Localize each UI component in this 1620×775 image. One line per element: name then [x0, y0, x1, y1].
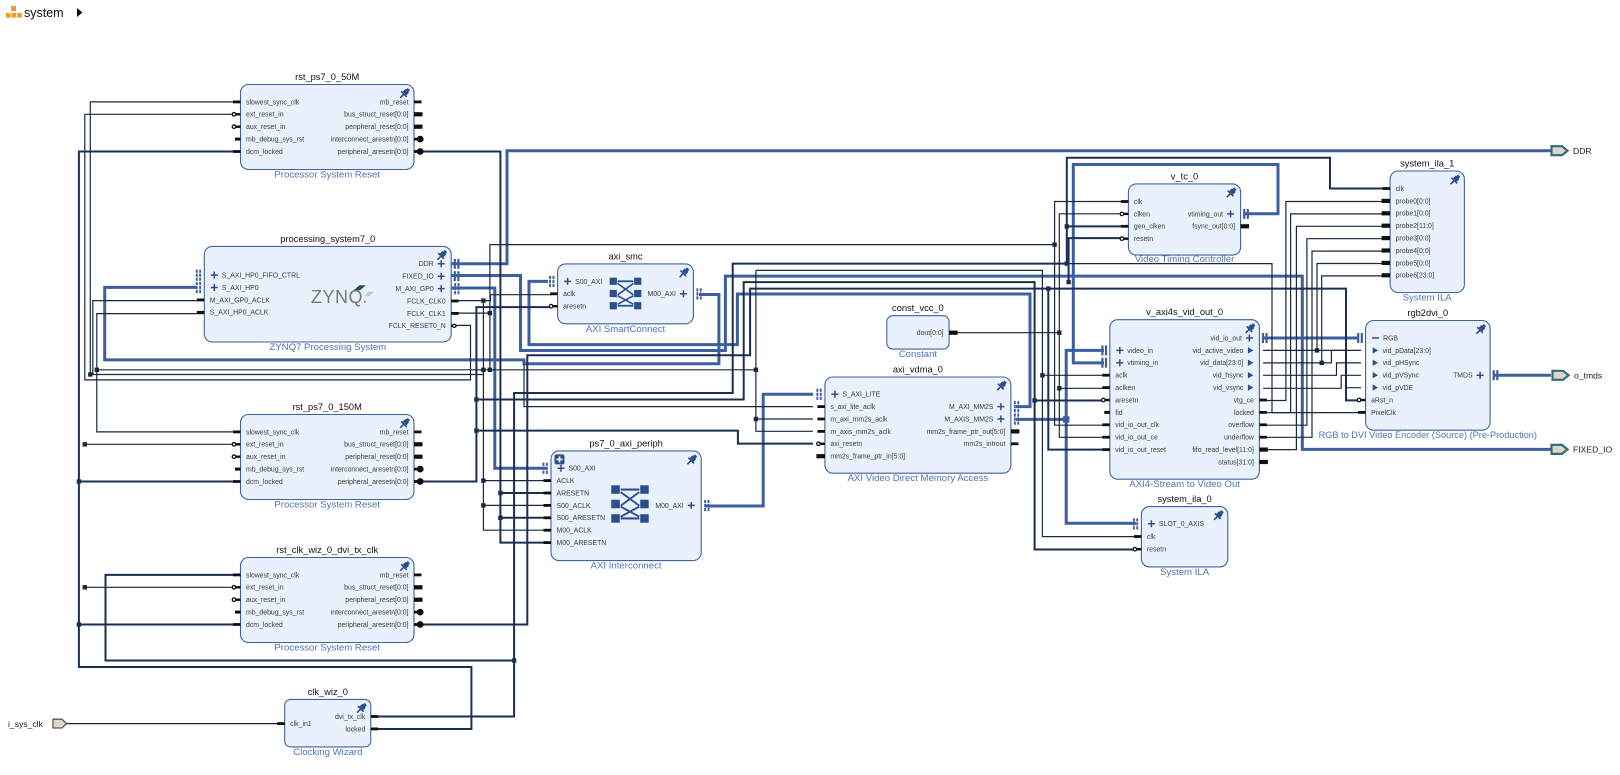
svg-text:probe2[11:0]: probe2[11:0] — [1396, 223, 1434, 230]
wire wire — [1263, 239, 1386, 426]
pin rst_clk_wiz_0_dvi_tx_clk.peripheral_reset[0:0] — [414, 598, 423, 602]
svg-text:vid_pData[23:0]: vid_pData[23:0] — [1383, 348, 1431, 355]
wire net vid_io_out to RGB — [1263, 337, 1358, 340]
pin v_axi4s_vid_out_0.aclk — [1102, 374, 1110, 377]
svg-text:aux_reset_in: aux_reset_in — [246, 454, 286, 461]
svg-text:S00_AXI: S00_AXI — [575, 279, 602, 286]
wire wire — [1263, 363, 1361, 375]
svg-text:locked: locked — [345, 726, 365, 733]
svg-text:mb_reset: mb_reset — [380, 99, 409, 106]
wire wire — [97, 370, 241, 432]
wire wire — [756, 270, 1137, 536]
svg-text:vid_io_out: vid_io_out — [1210, 335, 1242, 342]
pin system_ila_1.probe3[0:0] — [1382, 236, 1391, 240]
wire net FIXED_IO — [451, 276, 1551, 450]
pin v_axi4s_vid_out_0.vid_data[23:0] — [1248, 360, 1253, 366]
external port o_tmds — [1553, 371, 1569, 380]
junction — [88, 372, 92, 376]
wire wire — [1263, 251, 1386, 437]
pin ps7_0_axi_periph.M00_ARESETN — [544, 541, 552, 544]
junction — [1315, 348, 1319, 352]
svg-text:S00_ACLK: S00_ACLK — [557, 503, 591, 510]
svg-text:Video Timing Controller: Video Timing Controller — [1135, 254, 1235, 265]
pin ps7_0_axi_periph.S00_AXI — [558, 465, 565, 472]
svg-text:Processor System Reset: Processor System Reset — [274, 170, 380, 181]
pin clk_wiz_0.locked — [371, 728, 379, 731]
svg-text:interconnect_aresetn[0:0]: interconnect_aresetn[0:0] — [331, 610, 409, 617]
pin v_tc_0.resetn — [1124, 238, 1129, 240]
svg-text:fifo_read_level[11:0]: fifo_read_level[11:0] — [1192, 447, 1254, 454]
pin rst_ps7_0_150M.peripheral_reset[0:0] — [414, 455, 423, 459]
pin axi_smc.aclk — [550, 292, 558, 295]
svg-text:fsync_out[0:0]: fsync_out[0:0] — [1192, 224, 1235, 231]
svg-text:m_axi_mm2s_aclk: m_axi_mm2s_aclk — [830, 416, 888, 423]
svg-text:vid_io_out_clk: vid_io_out_clk — [1115, 422, 1159, 429]
pin processing_system7_0.S_AXI_HP0_ACLK — [197, 311, 205, 314]
junction — [754, 368, 758, 372]
wire net M_AXI_GP0 to ps7_0_axi_periph S00_AXI — [451, 288, 546, 468]
svg-text:locked: locked — [1234, 410, 1254, 417]
svg-text:FIXED_IO: FIXED_IO — [402, 274, 434, 281]
pin v_tc_0.fsync_out[0:0] — [1241, 224, 1250, 228]
svg-text:bus_struct_reset[0:0]: bus_struct_reset[0:0] — [344, 112, 408, 119]
svg-text:dout[0:0]: dout[0:0] — [917, 330, 944, 337]
wire wire — [1055, 245, 1104, 426]
svg-text:system: system — [24, 6, 64, 20]
svg-text:vid_data[23:0]: vid_data[23:0] — [1200, 360, 1243, 367]
svg-text:RGB to DVI Video Encoder (Sour: RGB to DVI Video Encoder (Source) (Pre-P… — [1319, 430, 1537, 440]
junction — [1320, 361, 1324, 365]
pin rst_ps7_0_50M.peripheral_reset[0:0] — [414, 125, 423, 129]
pin rst_clk_wiz_0_dvi_tx_clk.interconnect_aresetn[0:0] — [414, 611, 419, 614]
pin system_ila_1.clk — [1383, 187, 1391, 190]
svg-text:system_ila_1: system_ila_1 — [1400, 159, 1454, 169]
pin v_axi4s_vid_out_0.vid_io_out — [1246, 335, 1253, 342]
wire wire — [500, 517, 546, 519]
pin rgb2dvi_0.TMDS — [1477, 372, 1484, 379]
pin rgb2dvi_0.vid_pVDE — [1373, 384, 1378, 390]
wire wire — [93, 301, 484, 375]
svg-text:clk: clk — [1396, 186, 1405, 193]
svg-text:M00_ARESETN: M00_ARESETN — [557, 540, 607, 547]
wire net PixelClk — [1067, 264, 1361, 413]
pin rgb2dvi_0.RGB — [1372, 337, 1379, 339]
svg-text:dvi_tx_clk: dvi_tx_clk — [335, 714, 366, 721]
svg-text:vid_hsync: vid_hsync — [1213, 373, 1244, 380]
pin v_axi4s_vid_out_0.locked — [1259, 411, 1267, 414]
pin rgb2dvi_0.aRst_n — [1361, 399, 1366, 401]
external port FIXED_IO — [1552, 445, 1568, 454]
pin ps7_0_axi_periph.ARESETN — [544, 492, 552, 495]
pin processing_system7_0.S_AXI_HP0_FIFO_CTRL — [211, 272, 218, 279]
pin v_axi4s_vid_out_0.fifo_read_level[11:0] — [1259, 448, 1268, 452]
svg-text:mm2s_introut: mm2s_introut — [964, 441, 1006, 448]
pin ps7_0_axi_periph.S00_ACLK — [544, 504, 552, 507]
svg-text:clk: clk — [1134, 199, 1143, 206]
svg-text:S00_ARESETN: S00_ARESETN — [557, 515, 606, 522]
svg-text:S00_AXI: S00_AXI — [569, 466, 596, 473]
wire wire — [1069, 238, 1123, 282]
wire wire — [524, 364, 813, 407]
svg-text:DDR: DDR — [1573, 146, 1592, 156]
wire wire — [90, 102, 240, 375]
svg-text:aclk: aclk — [563, 291, 576, 298]
svg-text:ps7_0_axi_periph: ps7_0_axi_periph — [589, 438, 662, 448]
junction — [1057, 386, 1061, 390]
breadcrumb arrow — [77, 8, 83, 17]
pin v_axi4s_vid_out_0.vid_active_video — [1248, 347, 1253, 353]
pin rst_ps7_0_150M.mb_debug_sys_rst — [235, 468, 241, 471]
svg-text:Processor System Reset: Processor System Reset — [274, 500, 380, 511]
svg-text:rst_ps7_0_150M: rst_ps7_0_150M — [293, 402, 362, 412]
svg-text:interconnect_aresetn[0:0]: interconnect_aresetn[0:0] — [331, 137, 409, 144]
svg-text:peripheral_aresetn[0:0]: peripheral_aresetn[0:0] — [338, 149, 409, 156]
wire net rst50M peripheral_aresetn — [421, 152, 546, 543]
pin v_tc_0.clken — [1124, 213, 1129, 215]
svg-text:ext_reset_in: ext_reset_in — [246, 112, 284, 119]
svg-text:mb_debug_sys_rst: mb_debug_sys_rst — [246, 610, 304, 617]
wire net FCLK_CLK1 — [97, 313, 490, 370]
pin rst_ps7_0_150M.bus_struct_reset[0:0] — [414, 442, 423, 446]
wire wire — [490, 370, 813, 432]
svg-text:vid_active_video: vid_active_video — [1192, 348, 1243, 355]
svg-text:s_axi_lite_aclk: s_axi_lite_aclk — [830, 404, 875, 411]
svg-text:M_AXI_MM2S: M_AXI_MM2S — [949, 404, 994, 411]
svg-text:ext_reset_in: ext_reset_in — [246, 585, 284, 592]
pin axi_vdma_0.m_axi_mm2s_aclk — [817, 418, 825, 421]
wire wire — [1067, 225, 1123, 227]
pin rgb2dvi_0.PixelClk — [1358, 411, 1366, 414]
svg-text:probe0[0:0]: probe0[0:0] — [1396, 198, 1431, 205]
svg-text:axi_smc: axi_smc — [608, 251, 642, 261]
svg-text:i_sys_clk: i_sys_clk — [8, 719, 44, 729]
wire wire — [476, 282, 1137, 549]
svg-text:probe4[0:0]: probe4[0:0] — [1396, 248, 1431, 255]
wire wire — [755, 270, 757, 369]
pin axi_vdma_0.M_AXIS_MM2S — [997, 416, 1004, 423]
junction — [1052, 242, 1056, 246]
svg-text:dcm_locked: dcm_locked — [246, 622, 283, 629]
wire wire — [79, 624, 241, 626]
breadcrumb icon — [6, 6, 22, 18]
svg-text:AXI4-Stream to Video Out: AXI4-Stream to Video Out — [1129, 479, 1240, 490]
pin v_axi4s_vid_out_0.overflow — [1259, 423, 1267, 426]
svg-text:vtiming_in: vtiming_in — [1127, 360, 1158, 367]
wire wire — [1263, 226, 1386, 449]
svg-text:slowest_sync_clk: slowest_sync_clk — [246, 572, 300, 579]
wire net FCLK_RESET0_N — [85, 114, 471, 380]
svg-text:peripheral_aresetn[0:0]: peripheral_aresetn[0:0] — [338, 479, 409, 486]
pin rst_ps7_0_50M.aux_reset_in — [236, 126, 241, 128]
junction — [481, 298, 485, 302]
pin clk_wiz_0.dvi_tx_clk — [371, 715, 379, 718]
pin v_axi4s_vid_out_0.vid_io_out_clk — [1102, 423, 1110, 426]
pin axi_vdma_0.axi_resetn — [820, 443, 825, 445]
wire wire — [1042, 374, 1104, 376]
junction — [1046, 286, 1050, 290]
svg-text:clk_wiz_0: clk_wiz_0 — [308, 687, 348, 697]
junction — [488, 368, 492, 372]
wire wire — [1059, 387, 1104, 389]
pin v_axi4s_vid_out_0.vid_hsync — [1248, 372, 1253, 378]
svg-text:rst_ps7_0_50M: rst_ps7_0_50M — [295, 72, 359, 82]
wire net M_AXIS_MM2S to video_in — [1016, 350, 1104, 419]
wire wire — [500, 492, 546, 494]
pin rst_clk_wiz_0_dvi_tx_clk.slowest_sync_clk — [233, 574, 241, 577]
pin v_axi4s_vid_out_0.aresetn — [1105, 399, 1110, 401]
svg-text:FCLK_RESET0_N: FCLK_RESET0_N — [389, 323, 446, 330]
wire net i_sys_clk to clk_in1 — [66, 723, 281, 725]
svg-text:DDR: DDR — [419, 261, 434, 268]
wire wire — [1035, 400, 1104, 402]
svg-text:ZYNQ7 Processing System: ZYNQ7 Processing System — [269, 342, 386, 353]
junction — [474, 428, 478, 432]
pin v_axi4s_vid_out_0.vtiming_in — [1116, 359, 1123, 366]
svg-text:dcm_locked: dcm_locked — [246, 479, 283, 486]
wire net M_AXI_MM2S to axi_smc S00_AXI — [529, 281, 1030, 406]
pin v_axi4s_vid_out_0.status[31:0] — [1259, 460, 1268, 464]
wire wire — [1263, 202, 1386, 401]
svg-text:clk_in1: clk_in1 — [290, 721, 312, 728]
pin rst_clk_wiz_0_dvi_tx_clk.mb_reset — [414, 574, 422, 577]
wire net axi_smc M00_AXI to S_AXI_HP0 — [105, 287, 719, 363]
svg-text:system_ila_0: system_ila_0 — [1157, 494, 1211, 504]
junction — [481, 478, 485, 482]
pin v_axi4s_vid_out_0.vid_io_out_reset — [1102, 448, 1110, 451]
pin rst_ps7_0_150M.dcm_locked — [233, 480, 241, 483]
wire wire — [483, 480, 546, 482]
pin v_axi4s_vid_out_0.fid — [1104, 411, 1110, 414]
svg-text:TMDS: TMDS — [1453, 373, 1473, 380]
pin processing_system7_0.S_AXI_HP0 — [211, 284, 218, 291]
svg-text:FCLK_CLK1: FCLK_CLK1 — [407, 311, 446, 318]
wire wire — [476, 431, 813, 444]
svg-text:mb_debug_sys_rst: mb_debug_sys_rst — [246, 137, 304, 144]
svg-text:v_tc_0: v_tc_0 — [1171, 171, 1198, 181]
svg-text:peripheral_reset[0:0]: peripheral_reset[0:0] — [345, 597, 408, 604]
pin system_ila_1.probe1[0:0] — [1382, 211, 1391, 215]
svg-text:m_axis_mm2s_aclk: m_axis_mm2s_aclk — [830, 429, 891, 436]
svg-text:aux_reset_in: aux_reset_in — [246, 597, 286, 604]
svg-text:Processor System Reset: Processor System Reset — [274, 643, 380, 654]
wire wire — [1263, 350, 1361, 363]
svg-text:M00_AXI: M00_AXI — [655, 503, 683, 510]
pin system_ila_1.probe0[0:0] — [1382, 199, 1391, 203]
svg-text:underflow: underflow — [1224, 435, 1254, 442]
pin axi_smc.S00_AXI — [564, 278, 571, 285]
svg-text:mb_reset: mb_reset — [380, 572, 409, 579]
pin system_ila_1.probe4[0:0] — [1382, 248, 1391, 252]
pin processing_system7_0.FCLK_RESET0_N — [451, 325, 457, 327]
pin rst_clk_wiz_0_dvi_tx_clk.mb_debug_sys_rst — [235, 611, 241, 614]
svg-text:vid_pVDE: vid_pVDE — [1383, 385, 1414, 392]
pin rst_ps7_0_50M.ext_reset_in — [236, 113, 241, 115]
svg-text:Constant: Constant — [899, 349, 938, 360]
svg-text:SLOT_0_AXIS: SLOT_0_AXIS — [1159, 521, 1205, 528]
wire wire — [1263, 375, 1361, 388]
svg-text:v_axi4s_vid_out_0: v_axi4s_vid_out_0 — [1146, 307, 1223, 317]
pin rst_ps7_0_50M.mb_debug_sys_rst — [235, 138, 241, 141]
pin v_axi4s_vid_out_0.vid_io_out_ce — [1102, 436, 1110, 439]
pin v_tc_0.clk — [1121, 200, 1129, 203]
pin v_axi4s_vid_out_0.video_in — [1116, 347, 1123, 354]
pin processing_system7_0.FCLK_CLK0 — [451, 300, 459, 303]
junction — [754, 417, 758, 421]
svg-text:probe5[0:0]: probe5[0:0] — [1396, 260, 1431, 267]
svg-text:const_vcc_0: const_vcc_0 — [892, 303, 944, 313]
pin axi_vdma_0.M_AXI_MM2S — [997, 403, 1004, 410]
svg-text:ACLK: ACLK — [557, 478, 575, 485]
pin processing_system7_0.DDR — [438, 260, 445, 267]
pin clk_wiz_0.clk_in1 — [277, 722, 285, 725]
junction — [1040, 373, 1044, 377]
wire net periph M00_AXI to vdma S_AXI_LITE — [705, 394, 813, 506]
wire wire — [490, 202, 1123, 314]
junction — [77, 622, 81, 626]
pin rst_ps7_0_150M.ext_reset_in — [236, 443, 241, 445]
junction — [1032, 398, 1036, 402]
wire wire — [483, 301, 546, 531]
junction — [95, 368, 99, 372]
wire net FCLK_CLK0 to smc aclk — [451, 295, 552, 301]
pin rst_clk_wiz_0_dvi_tx_clk.peripheral_aresetn[0:0] — [414, 623, 419, 626]
junction — [481, 503, 485, 507]
svg-text:video_in: video_in — [1127, 348, 1153, 355]
svg-text:AXI Video Direct Memory Access: AXI Video Direct Memory Access — [848, 473, 989, 484]
pin axi_vdma_0.mm2s_introut — [1011, 442, 1019, 445]
external port DDR — [1552, 146, 1568, 155]
junction — [83, 442, 87, 446]
junction — [498, 491, 502, 495]
wire wire — [1263, 214, 1386, 413]
pin rst_ps7_0_50M.dcm_locked — [233, 150, 241, 153]
pin v_axi4s_vid_out_0.vtg_ce — [1259, 399, 1267, 402]
svg-text:vid_io_out_reset: vid_io_out_reset — [1115, 447, 1166, 454]
svg-text:aRst_n: aRst_n — [1371, 397, 1393, 404]
svg-text:vid_vsync: vid_vsync — [1213, 385, 1244, 392]
pin rgb2dvi_0.vid_pHSync — [1373, 360, 1378, 366]
svg-text:System ILA: System ILA — [1403, 293, 1453, 304]
svg-text:aclk: aclk — [1115, 373, 1128, 380]
wire wire — [85, 443, 241, 445]
pin v_axi4s_vid_out_0.underflow — [1259, 436, 1267, 439]
junction — [1057, 331, 1061, 335]
svg-text:peripheral_reset[0:0]: peripheral_reset[0:0] — [345, 454, 408, 461]
wire net dvi_tx_clk branch to rst_clk_wiz slowest_sync_clk — [106, 575, 515, 661]
svg-text:bus_struct_reset[0:0]: bus_struct_reset[0:0] — [344, 442, 408, 449]
junction — [474, 397, 478, 401]
svg-text:System ILA: System ILA — [1160, 567, 1210, 578]
svg-text:probe1[0:0]: probe1[0:0] — [1396, 211, 1431, 218]
wire wire — [1263, 350, 1361, 387]
wire net TMDS to o_tmds — [1494, 374, 1551, 377]
svg-text:M_AXIS_MM2S: M_AXIS_MM2S — [944, 416, 993, 423]
pin axi_vdma_0.mm2s_frame_ptr_in[5:0] — [816, 454, 825, 458]
svg-text:S_AXI_HP0_FIFO_CTRL: S_AXI_HP0_FIFO_CTRL — [222, 273, 300, 280]
wire wire — [483, 504, 546, 506]
svg-text:M00_AXI: M00_AXI — [648, 291, 676, 298]
external port i_sys_clk — [53, 719, 67, 728]
svg-text:mm2s_frame_ptr_in[5:0]: mm2s_frame_ptr_in[5:0] — [830, 454, 905, 461]
pin rst_clk_wiz_0_dvi_tx_clk.aux_reset_in — [236, 599, 241, 601]
svg-text:o_tmds: o_tmds — [1574, 371, 1602, 381]
svg-text:mb_debug_sys_rst: mb_debug_sys_rst — [246, 467, 304, 474]
svg-text:fid: fid — [1115, 410, 1122, 417]
svg-text:RGB: RGB — [1383, 335, 1398, 342]
pin system_ila_1.probe6[23:0] — [1382, 273, 1391, 277]
svg-text:probe6[23:0]: probe6[23:0] — [1396, 273, 1435, 280]
junction — [488, 311, 492, 315]
wire wire — [756, 418, 813, 420]
svg-text:ARESETN: ARESETN — [557, 490, 590, 497]
wire wire — [79, 481, 241, 483]
pin rst_ps7_0_150M.peripheral_aresetn[0:0] — [414, 480, 419, 483]
svg-text:processing_system7_0: processing_system7_0 — [280, 234, 375, 244]
svg-text:resetn: resetn — [1134, 236, 1153, 243]
pin ps7_0_axi_periph.ACLK — [544, 479, 552, 482]
svg-text:axi_vdma_0: axi_vdma_0 — [893, 365, 943, 375]
svg-text:AXI Interconnect: AXI Interconnect — [591, 561, 662, 572]
svg-text:overflow: overflow — [1228, 422, 1254, 429]
svg-text:vid_pVSync: vid_pVSync — [1383, 373, 1420, 380]
svg-text:interconnect_aresetn[0:0]: interconnect_aresetn[0:0] — [331, 467, 409, 474]
pin rgb2dvi_0.vid_pData[23:0] — [1373, 347, 1378, 353]
svg-text:mm2s_frame_ptr_out[5:0]: mm2s_frame_ptr_out[5:0] — [926, 429, 1005, 436]
pin rst_ps7_0_150M.mb_reset — [414, 431, 422, 434]
svg-text:mb_reset: mb_reset — [380, 429, 409, 436]
svg-text:M00_ACLK: M00_ACLK — [557, 528, 593, 535]
svg-text:bus_struct_reset[0:0]: bus_struct_reset[0:0] — [344, 585, 408, 592]
svg-text:aresetn: aresetn — [563, 304, 586, 311]
junction — [83, 585, 87, 589]
pin rst_ps7_0_50M.peripheral_aresetn[0:0] — [414, 150, 419, 153]
svg-text:clken: clken — [1134, 211, 1150, 218]
pin rst_clk_wiz_0_dvi_tx_clk.ext_reset_in — [236, 586, 241, 588]
pin axi_vdma_0.mm2s_frame_ptr_out[5:0] — [1011, 429, 1020, 433]
svg-text:PixelClk: PixelClk — [1371, 410, 1396, 417]
wire net clk_wiz locked — [79, 152, 472, 730]
wire net vtiming_out to vtiming_in — [1073, 165, 1278, 363]
svg-text:aresetn: aresetn — [1115, 397, 1138, 404]
pin rst_ps7_0_50M.mb_reset — [414, 101, 422, 104]
pin system_ila_0.SLOT_0_AXIS — [1148, 520, 1155, 527]
svg-text:gen_clken: gen_clken — [1134, 224, 1166, 231]
pin rst_clk_wiz_0_dvi_tx_clk.bus_struct_reset[0:0] — [414, 585, 423, 589]
wire net dvi_tx_clk — [375, 158, 1386, 717]
pin rst_ps7_0_150M.aux_reset_in — [236, 456, 241, 458]
svg-text:Clocking Wizard: Clocking Wizard — [293, 747, 362, 758]
pin axi_vdma_0.m_axis_mm2s_aclk — [817, 430, 825, 433]
wire net DDR — [451, 151, 1551, 264]
svg-text:vtiming_out: vtiming_out — [1188, 211, 1223, 218]
svg-text:ext_reset_in: ext_reset_in — [246, 442, 284, 449]
pin processing_system7_0.FIXED_IO — [438, 273, 445, 280]
wire wire — [85, 586, 241, 588]
svg-text:slowest_sync_clk: slowest_sync_clk — [246, 429, 300, 436]
svg-text:vtg_ce: vtg_ce — [1234, 397, 1254, 404]
wire branch to aRst_n — [1048, 289, 1361, 401]
svg-text:peripheral_reset[0:0]: peripheral_reset[0:0] — [345, 124, 408, 131]
pin v_axi4s_vid_out_0.aclken — [1102, 386, 1110, 389]
junction — [1063, 416, 1069, 422]
pin rst_ps7_0_50M.interconnect_aresetn[0:0] — [414, 138, 419, 141]
pin rst_clk_wiz_0_dvi_tx_clk.dcm_locked — [233, 623, 241, 626]
svg-text:aux_reset_in: aux_reset_in — [246, 124, 286, 131]
svg-text:clk: clk — [1147, 534, 1156, 541]
pin system_ila_1.probe5[0:0] — [1382, 261, 1391, 265]
svg-text:S_AXI_HP0_ACLK: S_AXI_HP0_ACLK — [210, 310, 269, 317]
pin processing_system7_0.M_AXI_GP0 — [438, 285, 445, 292]
